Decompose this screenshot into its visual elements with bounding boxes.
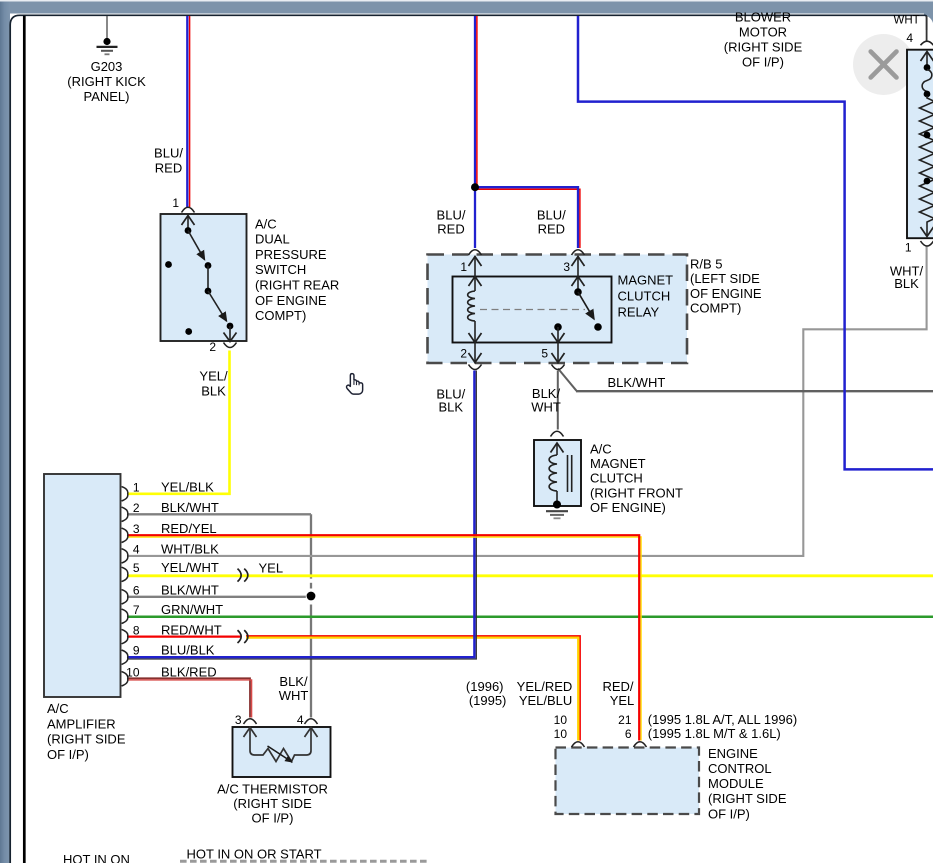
svg-text:4: 4 [906,31,913,45]
svg-text:7: 7 [133,603,140,617]
svg-text:10: 10 [554,727,568,741]
svg-text:YEL/BLU: YEL/BLU [519,693,572,708]
svg-text:1: 1 [905,241,912,255]
svg-text:BLU/BLK: BLU/BLK [161,643,215,658]
svg-text:BLK/WHT: BLK/WHT [608,375,666,390]
svg-text:RED/YEL: RED/YEL [161,521,217,536]
svg-text:(RIGHT SIDE: (RIGHT SIDE [724,40,803,55]
svg-text:YEL/: YEL/ [199,369,228,384]
svg-text:4: 4 [297,713,304,727]
svg-text:OF I/P): OF I/P) [742,55,784,70]
svg-text:CLUTCH: CLUTCH [618,289,671,304]
svg-text:(RIGHT KICK: (RIGHT KICK [67,74,146,89]
svg-text:RED: RED [437,221,464,236]
svg-text:MODULE: MODULE [708,776,764,791]
svg-text:MAGNET: MAGNET [618,273,674,288]
svg-text:5: 5 [541,347,548,361]
svg-text:OF I/P): OF I/P) [47,747,89,762]
svg-text:RED/WHT: RED/WHT [161,622,222,637]
svg-text:YEL: YEL [259,560,284,575]
svg-text:R/B 5: R/B 5 [690,257,723,272]
svg-text:(RIGHT FRONT: (RIGHT FRONT [590,485,683,500]
svg-text:HOT IN ON: HOT IN ON [63,852,130,863]
svg-text:MAGNET: MAGNET [590,456,646,471]
svg-text:YEL: YEL [610,693,635,708]
svg-text:CLUTCH: CLUTCH [590,471,643,486]
svg-text:BLK: BLK [439,400,464,415]
svg-text:BLK: BLK [894,276,919,291]
svg-text:BLK/WHT: BLK/WHT [161,500,219,515]
svg-text:HOT IN ON OR START: HOT IN ON OR START [187,847,322,862]
svg-text:RED/: RED/ [602,679,633,694]
svg-text:RED: RED [538,221,565,236]
svg-text:MOTOR: MOTOR [739,25,787,40]
svg-text:OF ENGINE): OF ENGINE) [590,500,666,515]
svg-text:PRESSURE: PRESSURE [255,247,327,262]
svg-text:(RIGHT REAR: (RIGHT REAR [255,278,339,293]
svg-text:(RIGHT SIDE: (RIGHT SIDE [233,796,312,811]
svg-text:WHT/BLK: WHT/BLK [161,541,219,556]
svg-text:A/C: A/C [47,701,69,716]
svg-text:(RIGHT SIDE: (RIGHT SIDE [708,791,787,806]
svg-text:YEL/BLK: YEL/BLK [161,479,214,494]
svg-text:1: 1 [172,196,179,210]
svg-text:(1995 1.8L A/T, ALL 1996): (1995 1.8L A/T, ALL 1996) [648,712,797,727]
svg-text:BLU/: BLU/ [437,207,466,222]
svg-text:3: 3 [235,713,242,727]
svg-text:21: 21 [618,713,632,727]
svg-text:YEL/RED: YEL/RED [517,679,573,694]
svg-text:CONTROL: CONTROL [708,761,772,776]
svg-text:BLK: BLK [201,383,226,398]
svg-text:COMPT): COMPT) [255,308,306,323]
svg-text:6: 6 [133,583,140,597]
svg-text:(RIGHT SIDE: (RIGHT SIDE [47,732,126,747]
svg-text:5: 5 [133,561,140,575]
svg-text:OF ENGINE: OF ENGINE [690,286,762,301]
svg-text:PANEL): PANEL) [84,89,130,104]
svg-text:BLK/WHT: BLK/WHT [161,582,219,597]
svg-text:WHT: WHT [531,399,561,414]
svg-text:(1995): (1995) [469,693,507,708]
svg-text:2: 2 [460,347,467,361]
svg-text:10: 10 [554,713,568,727]
svg-text:BLU/: BLU/ [154,145,183,160]
svg-text:A/C: A/C [255,216,277,231]
svg-text:ENGINE: ENGINE [708,746,758,761]
svg-text:GRN/WHT: GRN/WHT [161,602,223,617]
svg-text:COMPT): COMPT) [690,301,741,316]
svg-text:WHT: WHT [279,688,309,703]
svg-text:OF ENGINE: OF ENGINE [255,293,327,308]
svg-text:4: 4 [133,542,140,556]
svg-text:OF I/P): OF I/P) [708,806,750,821]
svg-text:2: 2 [209,340,216,354]
svg-text:OF I/P): OF I/P) [252,810,294,825]
svg-text:RED: RED [155,160,182,175]
svg-text:BLK/: BLK/ [279,674,308,689]
svg-text:SWITCH: SWITCH [255,262,306,277]
svg-text:DUAL: DUAL [255,232,290,247]
svg-text:2: 2 [133,501,140,515]
svg-text:A/C: A/C [590,441,612,456]
svg-text:1: 1 [460,260,467,274]
svg-text:BLU/: BLU/ [537,207,566,222]
svg-text:(1995 1.8L M/T & 1.6L): (1995 1.8L M/T & 1.6L) [648,726,781,741]
svg-text:1: 1 [133,480,140,494]
svg-text:BLOWER: BLOWER [735,10,791,25]
svg-text:(LEFT SIDE: (LEFT SIDE [690,271,760,286]
svg-text:6: 6 [625,727,632,741]
svg-text:3: 3 [563,260,570,274]
svg-text:A/C THERMISTOR: A/C THERMISTOR [217,782,328,797]
svg-text:BLK/RED: BLK/RED [161,664,217,679]
svg-text:(1996): (1996) [466,679,504,694]
svg-text:WHT: WHT [894,14,920,26]
svg-text:AMPLIFIER: AMPLIFIER [47,716,116,731]
svg-text:G203: G203 [91,59,123,74]
svg-text:RELAY: RELAY [618,305,660,320]
svg-text:9: 9 [133,644,140,658]
svg-text:YEL/WHT: YEL/WHT [161,560,219,575]
svg-text:8: 8 [133,623,140,637]
svg-text:3: 3 [133,522,140,536]
svg-text:10: 10 [126,665,140,679]
